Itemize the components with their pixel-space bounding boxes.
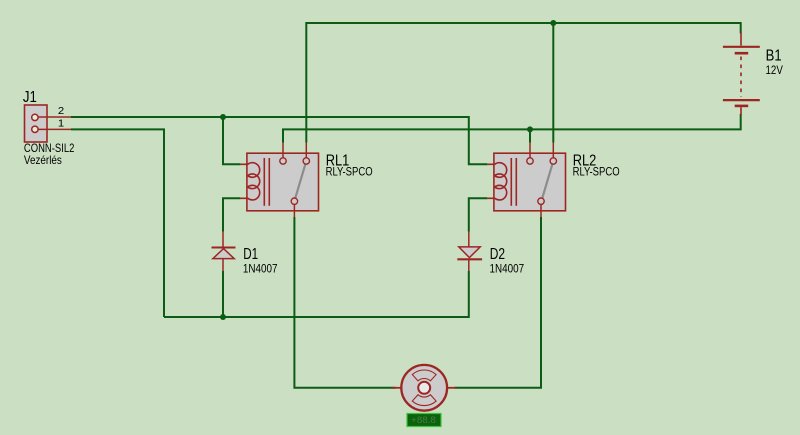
B1 top lead: [740, 33, 742, 46]
motor bottom brush slot: [412, 395, 436, 406]
RL2 core line 1: [510, 158, 512, 206]
B1 bottom thick plate: [735, 105, 749, 108]
RL2 coil: [487, 163, 506, 200]
motor body circle: [401, 365, 447, 411]
RL1 NO pin stub: [305, 143, 307, 158]
RL2 core line 2: [515, 158, 517, 206]
motor top brush slot: [412, 370, 436, 381]
B1 top thick plate: [735, 52, 749, 55]
relay RL2: [487, 143, 619, 218]
J1 pin 2 circle: [32, 114, 38, 120]
J1 body: [25, 105, 48, 142]
RL1 core line 2: [268, 158, 270, 206]
svg-text:RLY-SPCO: RLY-SPCO: [573, 166, 620, 179]
D1 anode lead: [222, 259, 224, 271]
RL1 core line 1: [263, 158, 265, 206]
svg-text:B1: B1: [766, 48, 782, 65]
diode D2: [457, 232, 524, 276]
wire RL1 common to motor left: [294, 217, 395, 388]
junction node J1.2/D1: [220, 114, 226, 120]
motor left lead: [392, 387, 402, 389]
junction node top wire RL2 NO: [550, 20, 556, 26]
svg-text:1: 1: [58, 118, 64, 130]
RL2 body: [494, 153, 566, 211]
wire RL1 coil top from node: [223, 117, 240, 164]
svg-text:1N4007: 1N4007: [490, 262, 525, 275]
D1 cathode lead: [222, 232, 224, 248]
J1 pin 1 lead: [38, 128, 71, 130]
svg-text:+88.8: +88.8: [411, 415, 436, 426]
RL1 coil: [240, 163, 259, 200]
wire D1 anode to bottom wire: [222, 271, 224, 317]
svg-text:1N4007: 1N4007: [243, 262, 278, 275]
J1 pin 1 circle: [32, 126, 38, 132]
svg-text:D1: D1: [243, 246, 258, 263]
RL1 pole pin circle: [280, 158, 286, 164]
RL2 common pin stub: [540, 204, 542, 217]
wire bottom horizontal to D2 anode: [164, 271, 469, 317]
diode D1: [212, 232, 278, 276]
RL2 common pin circle: [538, 198, 544, 204]
motor M: [392, 365, 456, 411]
wire RL1 coil bottom to D1 cathode: [223, 198, 240, 231]
wire J1 pin1 down-left vertical: [71, 129, 164, 317]
svg-text:Vezérlés: Vezérlés: [24, 154, 62, 167]
wire RL2 NO contact up to top wire: [552, 23, 554, 143]
svg-text:D2: D2: [490, 246, 505, 263]
motor hub circle: [418, 382, 430, 394]
svg-text:12V: 12V: [766, 64, 783, 77]
D2 triangle: [459, 247, 480, 258]
junction node bottom wire D1: [220, 314, 226, 320]
RL2 switch arm: [542, 164, 552, 198]
D2 cathode bar: [457, 258, 482, 260]
wire RL2 pole stub from node: [529, 129, 531, 142]
D1 cathode bar: [212, 247, 236, 249]
connector J1: [23, 89, 75, 167]
D2 cathode lead: [468, 260, 470, 271]
svg-text:RLY-SPCO: RLY-SPCO: [326, 166, 373, 179]
wire motor right to RL2 common: [455, 217, 542, 388]
svg-text:2: 2: [58, 105, 64, 117]
RL2 NO pin stub: [552, 143, 554, 158]
RL1 pole pin stub: [282, 143, 284, 158]
B1 bottom lead: [740, 107, 742, 115]
RL1 common pin stub: [293, 204, 295, 217]
junction node RL2 pole: [527, 126, 533, 132]
RL2 pole pin circle: [527, 158, 533, 164]
B1 bottom long plate: [723, 99, 760, 101]
wire J1 pin2 to RL2 coil top: [71, 117, 487, 164]
D1 triangle: [213, 249, 234, 259]
RL2 NO pin circle: [550, 158, 556, 164]
RL2 pole pin stub: [529, 143, 531, 158]
RL1 common pin circle: [291, 198, 297, 204]
D2 anode lead: [468, 232, 470, 248]
wire D2 cathode to RL2 coil bottom: [469, 198, 488, 231]
RL1 body: [247, 153, 319, 211]
battery B1: [723, 33, 783, 116]
J1 pin 2 lead: [38, 116, 71, 118]
motor speed display: [407, 414, 441, 427]
motor right lead: [447, 387, 457, 389]
wire RL1 pole up battery-bottom long horizontal: [283, 114, 741, 143]
wire RL1 NO contact up top horizontal to battery top: [306, 23, 740, 143]
relay RL1: [240, 143, 372, 218]
RL1 switch arm: [295, 164, 305, 198]
B1 dashed middle: [740, 57, 742, 98]
svg-text:CONN-SIL2: CONN-SIL2: [24, 142, 75, 155]
svg-text:J1: J1: [23, 89, 37, 106]
RL1 NO pin circle: [303, 158, 309, 164]
B1 top long plate: [723, 46, 760, 48]
display box: [407, 414, 441, 427]
